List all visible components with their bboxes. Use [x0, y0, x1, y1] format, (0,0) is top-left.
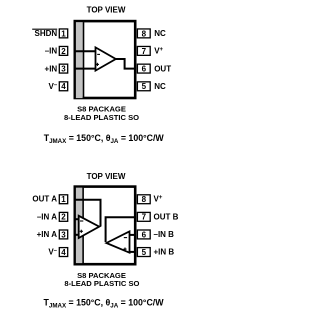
plus mark op-amp A — [80, 230, 83, 232]
svg-text:7: 7 — [142, 213, 147, 222]
wire pin7 OUT B to op-amp B output — [106, 217, 136, 242]
svg-text:NC: NC — [154, 82, 166, 91]
overline on SHDN — [32, 28, 57, 30]
svg-text:4: 4 — [61, 82, 66, 91]
svg-text:+IN B: +IN B — [154, 248, 175, 257]
wire op-amp output to pin6 — [115, 59, 136, 69]
pin 5 box U2 — [137, 248, 150, 257]
svg-text:TOP VIEW: TOP VIEW — [87, 5, 126, 14]
svg-text:NC: NC — [154, 29, 166, 38]
pin 3 box U2 — [59, 230, 67, 239]
pin 8 box U1 — [137, 29, 150, 38]
svg-text:OUT B: OUT B — [154, 212, 179, 221]
pin 2 box U2 — [59, 212, 67, 221]
pin 7 box U2 — [137, 212, 150, 221]
svg-text:8-LEAD PLASTIC SO: 8-LEAD PLASTIC SO — [64, 113, 139, 122]
svg-text:3: 3 — [61, 230, 66, 239]
svg-text:–IN: –IN — [45, 47, 58, 56]
pin 8 box U2 — [137, 195, 150, 204]
svg-text:8: 8 — [142, 195, 147, 204]
svg-text:5: 5 — [142, 82, 147, 91]
wire pin2 to op-amp A inverting input — [75, 218, 79, 220]
op-amp A triangle — [79, 216, 100, 238]
svg-text:SHDN: SHDN — [35, 29, 58, 38]
svg-text:8-LEAD PLASTIC SO: 8-LEAD PLASTIC SO — [64, 279, 139, 288]
svg-text:5: 5 — [142, 248, 147, 257]
svg-text:6: 6 — [142, 230, 147, 239]
svg-text:TOP VIEW: TOP VIEW — [87, 172, 126, 181]
IC package U1 body — [75, 21, 135, 98]
pin 5 box U1 — [137, 82, 150, 91]
minus mark U1 — [97, 53, 100, 55]
svg-text:–IN B: –IN B — [154, 230, 175, 239]
wire pin6 to op-amp B inverting input — [129, 234, 136, 236]
IC package U2 body — [75, 187, 135, 265]
pin 4 box U1 — [59, 82, 67, 91]
wire pin3 to op-amp non-inverting input — [75, 68, 96, 70]
pin 6 box U1 — [137, 64, 150, 73]
minus mark op-amp A — [80, 220, 83, 222]
wire pin5 to op-amp B non-inverting input — [129, 251, 136, 253]
svg-text:–IN A: –IN A — [37, 212, 57, 221]
pin-1 side shading stripe U1 — [76, 22, 83, 98]
op-amp B triangle — [106, 231, 129, 252]
svg-text:7: 7 — [142, 47, 147, 56]
svg-text:+IN: +IN — [45, 64, 58, 73]
plus mark U1 — [96, 63, 99, 65]
svg-text:3: 3 — [61, 65, 66, 74]
minus mark op-amp B — [124, 237, 127, 239]
svg-text:OUT A: OUT A — [32, 195, 57, 204]
svg-text:+IN A: +IN A — [37, 230, 58, 239]
pin 1 box U1 — [59, 29, 67, 38]
pin 7 box U1 — [137, 46, 150, 55]
pin-1 side shading stripe U2 — [76, 188, 82, 263]
svg-text:2: 2 — [61, 213, 66, 222]
pin 6 box U2 — [137, 230, 150, 239]
pin 4 box U2 — [59, 248, 67, 257]
svg-text:1: 1 — [61, 195, 66, 204]
plus mark op-amp B — [123, 248, 126, 250]
wire pin2 to op-amp inverting input — [75, 50, 96, 52]
wire pin3 to op-amp A non-inverting input — [75, 234, 79, 236]
op-amp U1 triangle — [96, 47, 116, 70]
svg-text:2: 2 — [61, 47, 66, 56]
svg-text:1: 1 — [61, 29, 66, 38]
wire pin1 OUT A to op-amp A output — [75, 200, 101, 227]
pin 3 box U1 — [59, 64, 67, 73]
svg-text:4: 4 — [61, 248, 66, 257]
svg-text:8: 8 — [142, 29, 147, 38]
pin 2 box U1 — [59, 46, 67, 55]
svg-text:OUT: OUT — [154, 64, 171, 73]
svg-text:6: 6 — [142, 65, 147, 74]
pin 1 box U2 — [59, 195, 67, 204]
